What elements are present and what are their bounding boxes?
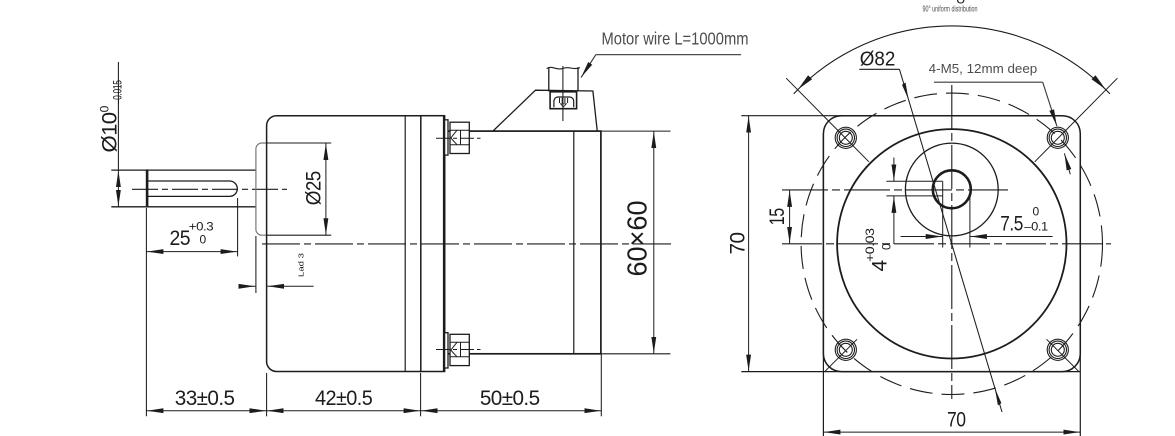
svg-text:+0.03: +0.03 [863, 228, 877, 262]
svg-text:70: 70 [727, 233, 750, 255]
svg-text:0: 0 [880, 243, 894, 250]
svg-text:90° uniform distribution: 90° uniform distribution [923, 4, 978, 13]
svg-text:33±0.5: 33±0.5 [175, 387, 235, 410]
svg-text:42±0.5: 42±0.5 [315, 387, 372, 410]
svg-text:Ø10: Ø10 [99, 113, 122, 153]
svg-text:25: 25 [170, 227, 191, 250]
svg-text:0: 0 [98, 105, 112, 112]
svg-text:+0.3: +0.3 [189, 219, 214, 233]
svg-text:7.5: 7.5 [1000, 212, 1023, 235]
svg-text:4-M5, 12mm deep: 4-M5, 12mm deep [929, 61, 1037, 76]
svg-text:–0.1: –0.1 [1024, 219, 1048, 233]
svg-text:Motor wire L=1000mm: Motor wire L=1000mm [602, 28, 749, 48]
svg-text:50±0.5: 50±0.5 [480, 387, 540, 410]
svg-text:Ø82: Ø82 [860, 49, 896, 71]
svg-text:U: U [956, 0, 965, 7]
svg-text:70: 70 [947, 408, 966, 431]
svg-text:0: 0 [1033, 204, 1040, 218]
svg-text:–0.015: –0.015 [111, 80, 125, 105]
svg-text:0: 0 [200, 232, 207, 246]
svg-text:Ø25: Ø25 [303, 171, 326, 205]
svg-text:15: 15 [766, 208, 789, 225]
svg-text:60×60: 60×60 [622, 201, 653, 277]
svg-text:Lad 3: Lad 3 [297, 253, 306, 277]
